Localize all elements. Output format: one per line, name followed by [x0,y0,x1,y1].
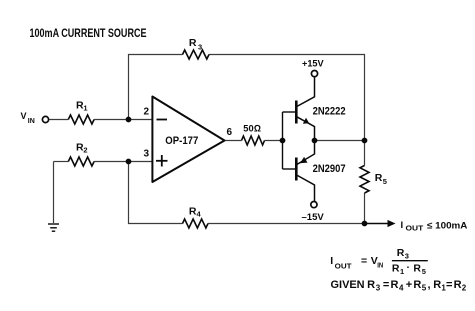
svg-text:2N2222: 2N2222 [313,106,346,118]
svg-text:5: 5 [422,267,426,276]
svg-text:50Ω: 50Ω [243,124,261,135]
svg-text:R: R [392,263,400,275]
svg-text:R: R [189,37,197,49]
svg-text:IN: IN [28,118,35,125]
svg-text:,: , [428,279,431,291]
svg-text:4: 4 [399,284,404,293]
svg-text:2N2907: 2N2907 [313,163,346,175]
svg-text:5: 5 [383,177,387,186]
svg-text:+15V: +15V [302,59,324,70]
svg-text:3: 3 [405,252,409,261]
svg-text:R: R [375,172,383,184]
svg-text:I: I [401,220,404,231]
svg-text:2: 2 [462,284,467,293]
svg-text:R: R [413,263,421,275]
svg-text:2: 2 [83,146,87,155]
svg-text:R: R [391,279,399,291]
svg-text:3: 3 [198,43,202,52]
svg-text:OUT: OUT [406,226,425,233]
svg-text:≤ 100mA: ≤ 100mA [427,221,468,232]
svg-text:100mA CURRENT SOURCE: 100mA CURRENT SOURCE [30,28,147,40]
svg-text:=: = [361,255,367,267]
svg-text:1: 1 [400,267,404,276]
svg-text:R: R [367,279,375,291]
svg-text:2: 2 [144,107,150,118]
svg-text:R: R [433,279,441,291]
svg-text:3: 3 [144,149,150,160]
svg-text:–15V: –15V [302,212,325,223]
svg-text:1: 1 [83,104,87,113]
svg-text:3: 3 [376,284,381,293]
svg-text:=: = [446,279,452,291]
svg-text:·: · [407,262,411,274]
svg-text:V: V [21,111,27,121]
svg-text:6: 6 [227,127,233,138]
svg-text:R: R [413,279,421,291]
svg-text:=: = [383,279,389,291]
svg-text:OUT: OUT [335,262,352,271]
svg-text:R: R [454,279,462,291]
svg-text:R: R [397,247,405,259]
svg-text:IN: IN [377,261,383,270]
svg-text:5: 5 [422,284,427,293]
svg-text:GIVEN: GIVEN [331,279,365,291]
svg-text:+: + [406,279,412,291]
svg-text:OP-177: OP-177 [165,135,198,147]
svg-text:I: I [330,255,333,267]
